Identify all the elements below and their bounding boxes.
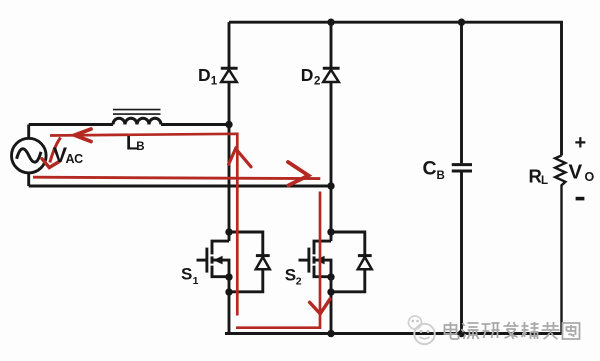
- svg-text:R: R: [529, 166, 542, 187]
- svg-text:AC: AC: [66, 152, 84, 166]
- svg-text:C: C: [423, 158, 437, 180]
- svg-text:B: B: [437, 170, 445, 182]
- svg-text:2: 2: [314, 75, 320, 87]
- svg-text:D: D: [301, 65, 314, 85]
- svg-text:1: 1: [211, 75, 218, 87]
- svg-text:+: +: [575, 132, 587, 154]
- svg-text:B: B: [136, 141, 144, 153]
- svg-text:2: 2: [296, 276, 302, 288]
- svg-text:D: D: [198, 65, 211, 85]
- svg-text:V: V: [569, 161, 583, 184]
- svg-text:S: S: [285, 266, 296, 285]
- svg-text:O: O: [585, 170, 595, 184]
- svg-text:L: L: [541, 175, 548, 187]
- svg-text:S: S: [181, 265, 192, 284]
- svg-text:1: 1: [193, 275, 199, 287]
